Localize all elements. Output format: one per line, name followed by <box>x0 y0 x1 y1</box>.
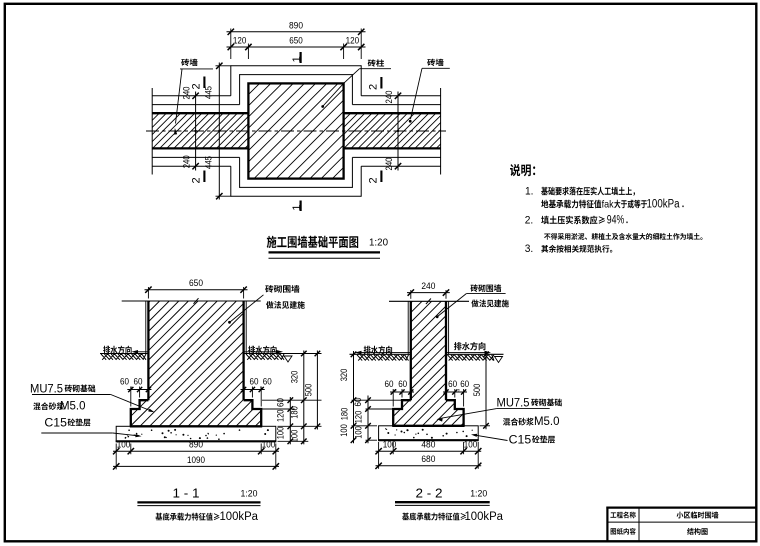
section 1-1: ext 60 left a <box>139 387 141 398</box>
section 2-2: label 砖砌基础 <box>531 399 562 407</box>
section 2-2: dim tick 60 right 2 <box>461 389 466 394</box>
section 1-1: leader C15 arrow <box>135 434 141 437</box>
svg-text:100: 100 <box>117 440 131 451</box>
svg-text:60: 60 <box>398 379 407 389</box>
section mark 2 lower right: cut tick <box>380 171 382 183</box>
section 1-1: wall face left <box>147 301 149 400</box>
plan: wall centerline <box>146 130 446 132</box>
section 2-2: ext footing bottom left <box>352 425 378 427</box>
section 2-2: plaster line left <box>407 301 409 354</box>
section 2-2: label 混合砂浆 <box>503 418 534 426</box>
plan: foundation step outline right edge lower <box>351 157 353 188</box>
section 2-2: ext pad bottom left <box>366 439 378 441</box>
svg-text:1: 1 <box>291 56 303 62</box>
section 1-1: footing bottom edge <box>130 425 262 427</box>
section 2-2: title rule thick <box>395 501 490 503</box>
section 2-2: drainage arrow left <box>355 351 362 355</box>
plan: dim tick 650 right <box>340 44 346 50</box>
plan: dim tick 120 left b <box>245 44 251 50</box>
plan: wall footing edge left bottom <box>152 165 231 167</box>
section 1-1: dim tick 60 left 2 <box>146 387 151 392</box>
section 1-1: ext 60 left b <box>130 387 132 407</box>
svg-text:C15: C15 <box>509 432 532 446</box>
section 2-2: dim tick 680 r <box>475 463 481 469</box>
plan: dim tick 240 left top <box>192 93 198 99</box>
section 2-2: soil hatch right <box>448 355 495 361</box>
section 2-2: dim line 240 <box>407 292 450 294</box>
svg-text:60: 60 <box>385 379 394 389</box>
section 2-2: ext bottom fo r <box>463 442 465 454</box>
svg-text:500: 500 <box>303 384 313 397</box>
section 1-1: ext pad bottom right <box>278 440 309 442</box>
section 2-2: wall face left <box>410 301 412 400</box>
svg-text:60: 60 <box>120 377 129 387</box>
section 1-1: dim tick 60 right 1 <box>250 387 255 392</box>
section 1-1: ext bottom fo r <box>260 444 262 455</box>
section 2-2: concrete pad C15 <box>379 426 479 440</box>
notes: line2 period <box>682 205 683 207</box>
plan: wall footing edge right bottom <box>361 165 440 167</box>
svg-text:890: 890 <box>189 440 203 451</box>
section 1-1: leader dot <box>228 321 231 324</box>
section 1-1: plaster line right <box>245 301 247 354</box>
section 2-2: leader C15 <box>473 435 508 441</box>
title block: label 工程名称 <box>610 512 635 519</box>
section 2-2: label 砖砌围墙 <box>471 284 502 292</box>
plan: foundation step outline left edge lower <box>239 157 241 188</box>
svg-text:1: 1 <box>291 205 303 211</box>
section 2-2: label 排水方向 left <box>364 346 392 354</box>
section 1-1: label 砖砌围墙 <box>265 285 299 293</box>
section 1-1: ground level symbol <box>284 356 292 362</box>
section 1-1: dim tick A0 <box>301 351 307 357</box>
section 2-2: ground line left <box>350 353 411 355</box>
svg-text:120: 120 <box>354 411 364 424</box>
svg-text:94%: 94% <box>607 214 625 226</box>
section 2-2: note 基底承载力特征值≥ <box>402 513 466 521</box>
plan title: rule thin <box>269 257 381 259</box>
section 2-2: pad stipple <box>385 428 476 439</box>
svg-text:650: 650 <box>289 35 303 46</box>
plan: dim dot 240 left center <box>194 130 196 132</box>
section 2-2: drainage arrow line left <box>358 352 411 354</box>
svg-text:2: 2 <box>368 177 380 183</box>
title block: row divider <box>607 521 756 523</box>
svg-text:2.: 2. <box>525 215 534 227</box>
section 2-2: wall face right <box>445 301 447 400</box>
plan: label 砖墙 left leader arrow <box>174 128 177 135</box>
section 2-2: drainage arrow right <box>485 351 492 355</box>
section 1-1: dim tick B0 <box>315 351 321 357</box>
section 1-1: dim tick B1 <box>315 424 321 430</box>
section 1-1: dim tick 60 left 1 <box>137 387 142 392</box>
section 2-2: label 砖砌围墙 underline <box>466 293 505 295</box>
section 1-1: dim tick A1 <box>301 397 307 403</box>
title block: left edge <box>606 507 608 542</box>
section 2-2: dim tick 60 right 1 <box>452 389 457 394</box>
svg-text:650: 650 <box>189 278 203 289</box>
plan: dim tick 240 right top <box>395 93 401 99</box>
section 1-1: footing steps right <box>244 400 262 426</box>
section 2-2: ext 60 right b <box>463 389 465 407</box>
section 1-1: ext step1 right <box>262 399 322 401</box>
title block: label 图纸内容 <box>611 528 636 535</box>
plan: label 砖柱 leader dot <box>321 105 324 108</box>
notes: line2 地基承载力特征值 <box>541 200 601 209</box>
plan: wall step edge right top <box>352 104 440 106</box>
section 1-1: label 排水方向 right <box>248 346 276 354</box>
section 1-1: ext line 650 r <box>243 287 245 299</box>
section 1-1: label C15 underline <box>41 432 113 434</box>
svg-text:1:20: 1:20 <box>241 489 258 500</box>
svg-text:100kPa: 100kPa <box>647 199 681 211</box>
section 2-2: label 做法见建施 <box>471 300 508 308</box>
section 2-2: dim tick 60 left 1 <box>399 389 404 394</box>
plan: label 砖墙 left <box>181 59 197 66</box>
section 1-1: ext 60 right a <box>251 387 253 398</box>
section 2-2: dim tick B0 <box>483 352 489 358</box>
section 1-1: drainage arrow left <box>132 350 139 354</box>
svg-text:320: 320 <box>289 371 299 384</box>
plan: dim line 120-650-120 <box>227 46 366 48</box>
section 1-1: ext bottom pad l <box>115 444 117 470</box>
svg-text:500: 500 <box>472 384 482 397</box>
plan: dim tick 445 bottom <box>216 193 222 199</box>
svg-text:120: 120 <box>275 409 285 422</box>
section 2-2: plaster line right <box>448 301 450 354</box>
plan: label 砖柱 underline <box>360 68 392 70</box>
section mark 1 top: cut tick <box>300 52 302 63</box>
section 1-1: dim line 60-60 left <box>127 389 151 391</box>
plan: foundation outline right edge lower <box>360 166 362 197</box>
plan: brick wall hatch left <box>124 113 280 148</box>
section 2-2: leader dot <box>436 315 439 318</box>
section 2-2: dim line 60-60 left <box>390 391 414 393</box>
svg-text:100: 100 <box>275 427 285 440</box>
svg-text:2: 2 <box>191 83 203 89</box>
svg-text:C15: C15 <box>44 415 67 429</box>
plan: brick column outline (650x650) <box>248 83 343 178</box>
notes: line3 填土压实系数应≥ <box>541 216 605 225</box>
section 2-2: dim line 320-180-100 left <box>353 351 355 443</box>
section 2-2: ext 60 left a <box>401 389 403 398</box>
svg-text:MU7.5: MU7.5 <box>30 381 63 395</box>
plan: brick wall face right bottom <box>344 147 441 149</box>
svg-text:120: 120 <box>346 35 360 46</box>
plan: label 砖柱 <box>368 59 384 66</box>
svg-text:100kPa: 100kPa <box>220 511 259 523</box>
plan: foundation step outline bottom edge <box>240 186 353 188</box>
svg-text:2: 2 <box>191 177 203 183</box>
section 1-1: label 混合砂浆 <box>33 402 64 410</box>
plan: brick wall face left bottom <box>152 147 248 149</box>
plan: dim line 240 right <box>397 92 399 171</box>
section 2-2: dim tick bottom1 1 <box>390 448 396 454</box>
section 1-1: dim line 320-180-100 <box>303 351 305 445</box>
section 1-1: pad stipple <box>125 429 269 440</box>
svg-text:1:20: 1:20 <box>470 489 487 500</box>
section 1-1: label 砖砌基础 <box>65 385 96 393</box>
section 2-2: dim tick 60 left 0 <box>391 389 396 394</box>
section 2-2: ext bottom fo l <box>392 442 394 454</box>
svg-text:60: 60 <box>460 379 469 389</box>
plan: dim line 240 left <box>195 92 197 171</box>
section 1-1: ext line 650 l <box>147 287 149 299</box>
section 1-1: ext footing bottom right <box>278 425 322 427</box>
plan: wall step edge left bottom <box>152 156 239 158</box>
section mark 1 bottom: cut tick <box>300 201 302 212</box>
plan: extension line right inner <box>343 44 345 60</box>
plan: label 砖墙 left leader <box>176 69 183 124</box>
plan: foundation outline left edge upper <box>230 65 232 96</box>
svg-text:240: 240 <box>384 158 395 171</box>
section 1-1: dim tick A2 <box>301 424 307 430</box>
notes: line5 其余按相关规范执行。 <box>541 245 612 253</box>
section 1-1: dim tick 650 r <box>240 287 246 293</box>
section 2-2: dim tick B1 <box>483 423 489 429</box>
section 1-1: leader 砖砌围墙 <box>230 295 264 322</box>
section 2-2: leader 砖砌围墙 <box>438 294 467 317</box>
section 2-2: footing bottom edge <box>392 425 464 427</box>
svg-text:120: 120 <box>233 35 247 46</box>
svg-text:60: 60 <box>263 377 272 387</box>
section 2-2: ext footing bottom right <box>480 425 491 427</box>
svg-text:60: 60 <box>275 398 285 407</box>
svg-text:180: 180 <box>340 408 350 421</box>
section 2-2: dim line 500 <box>485 351 487 429</box>
svg-text:60: 60 <box>448 379 457 389</box>
svg-text:320: 320 <box>339 369 349 382</box>
svg-text:,: , <box>259 380 261 390</box>
section 2-2: dim tick 240 r <box>443 289 449 295</box>
section 1-1: dim line 500 <box>316 351 318 430</box>
plan: dim dot 445 center <box>218 130 220 132</box>
svg-text:1 - 1: 1 - 1 <box>173 487 200 501</box>
svg-text:240: 240 <box>384 91 395 104</box>
section 2-2: leader MU arrow <box>437 419 443 422</box>
plan: dim tick 240 left bottom <box>192 163 198 169</box>
plan: extension line left outer <box>230 29 232 60</box>
section 2-2: footing steps right <box>446 400 464 426</box>
section 2-2: dim tick A2 <box>351 423 357 429</box>
plan: dim tick 120 left a <box>228 44 234 50</box>
section 1-1: dim line 60-120-100 <box>289 397 291 444</box>
plan: dim line 890 <box>227 31 366 33</box>
svg-text:2 - 2: 2 - 2 <box>416 487 443 501</box>
section 1-1: dim tick bottom1 1 <box>128 448 134 454</box>
section 2-2: dim tick C2 <box>365 423 371 429</box>
section 1-1: label MU underline <box>32 394 111 396</box>
plan: foundation outline top edge (890) <box>231 65 361 67</box>
plan: wall footing edge right top <box>361 95 440 97</box>
plan: dim tick 240 right bottom <box>395 163 401 169</box>
section 2-2: dim tick C3 <box>365 437 371 443</box>
plan: brick wall face right top <box>344 112 441 114</box>
plan: dim tick 890 left <box>228 29 234 35</box>
plan: foundation outline right edge upper <box>360 65 362 96</box>
plan: wall footing edge left top (480) <box>152 95 231 97</box>
section 1-1: dim tick 650 l <box>145 287 151 293</box>
section 1-1: ext bottom pad r <box>275 444 277 470</box>
section 1-1: drainage arrow right <box>277 350 284 354</box>
section 2-2: label 排水方向 right <box>454 342 486 350</box>
plan: label 砖墙 right leader dot <box>409 120 412 123</box>
section 2-2: dim tick 680 l <box>375 463 381 469</box>
plan: wall break line right <box>440 88 442 175</box>
svg-text:M5.0: M5.0 <box>60 399 86 413</box>
svg-text:680: 680 <box>421 454 435 465</box>
section 2-2: ext step1 left <box>352 399 404 401</box>
section 2-2: label MU underline <box>497 408 550 410</box>
section 2-2: dim tick 240 l <box>408 289 414 295</box>
title block: value 结构图 <box>687 528 708 535</box>
section 1-1: dim tick C0 <box>288 397 294 403</box>
section 2-2: label 砼垫层 <box>532 436 555 444</box>
section 1-1: leader MU arrow <box>148 409 154 413</box>
svg-text:3.: 3. <box>525 243 534 255</box>
plan: foundation step outline top edge (770) <box>240 74 353 76</box>
svg-text:1090: 1090 <box>187 455 205 466</box>
section 2-2: dim tick A3 <box>351 437 357 443</box>
section 1-1: brick hatch <box>15 301 380 426</box>
section 1-1: title rule thin <box>137 505 260 507</box>
section 2-2: ext line 240 l <box>410 290 412 299</box>
section 1-1: soil hatch right <box>246 354 284 360</box>
section 2-2: leader MU <box>439 409 497 419</box>
svg-text:60: 60 <box>134 377 143 387</box>
svg-text:480: 480 <box>421 440 435 451</box>
section 2-2: dim tick 60 left 2 <box>408 389 413 394</box>
section 1-1: dim tick C2 <box>288 424 294 430</box>
plan: extension line right outer <box>360 29 362 60</box>
svg-text:180: 180 <box>289 406 299 419</box>
section 1-1: plaster line left <box>145 301 147 354</box>
section mark 2 upper left: cut tick <box>203 77 205 89</box>
svg-text:fak: fak <box>602 198 615 210</box>
section 2-2: ext bottom pad l <box>378 442 380 469</box>
plan: dim tick 445 top <box>216 63 222 69</box>
plan: extension line 445 bottom <box>216 195 231 197</box>
title block: column divider <box>638 508 640 542</box>
svg-text:445: 445 <box>204 156 215 169</box>
section 1-1: concrete pad C15 <box>116 426 276 441</box>
title block: top edge <box>606 507 756 509</box>
section 2-2: dim tick bottom1 3 <box>475 448 481 454</box>
svg-text:100: 100 <box>289 430 299 443</box>
section 1-1: footing steps left <box>131 400 149 426</box>
section 2-2: dim tick A1 <box>351 397 357 403</box>
section 2-2: dim tick C0 <box>365 397 371 403</box>
section 2-2: brick hatch <box>278 301 585 426</box>
svg-text:M5.0: M5.0 <box>534 414 560 428</box>
plan: label 砖墙 left underline <box>180 68 213 70</box>
section 2-2: drainage arrow line right <box>446 352 489 354</box>
plan: extension line left inner <box>247 44 249 60</box>
svg-text:100: 100 <box>262 440 276 451</box>
section 1-1: leader MU <box>111 395 153 412</box>
section 1-1: ext 60 right b <box>260 387 262 407</box>
section 1-1: dim tick 1090 l <box>113 463 119 469</box>
section 1-1: note 基底承载力特征值≥ <box>156 513 220 521</box>
section 1-1: dim line 1090 <box>113 465 279 467</box>
section 1-1: dim tick 1090 r <box>273 463 279 469</box>
section 1-1: ext bottom fo l <box>130 444 132 455</box>
section 1-1: title rule thick <box>137 501 260 503</box>
section 2-2: dim line 100-480-100 <box>376 450 482 452</box>
section 1-1: dim tick bottom1 0 <box>113 448 119 454</box>
plan: foundation outline left edge lower <box>230 166 232 197</box>
section 1-1: leader C15 <box>113 433 140 436</box>
section 1-1: label 做法见建施 <box>266 301 305 309</box>
section 1-1: drainage arrow line left <box>134 351 148 353</box>
section 1-1: dim tick C3 <box>288 439 294 445</box>
plan: wall break line left <box>151 88 153 175</box>
section 2-2: dim tick C1 <box>365 406 371 412</box>
plan: label 砖柱 leader b <box>323 83 344 106</box>
section 1-1: concrete pad bottom edge <box>116 440 277 442</box>
svg-text:890: 890 <box>289 20 303 31</box>
notes: line4 不得采用淤泥、耕植土及含水量大的细粒土作为填土。 <box>544 233 702 240</box>
section 2-2: concrete pad bottom edge <box>378 439 479 441</box>
section 1-1: ext step2 right <box>262 408 295 410</box>
plan: foundation step outline left edge upper <box>239 74 241 105</box>
section 1-1: label 排水方向 left <box>103 346 131 354</box>
plan title: 施工围墙基础平面图 <box>267 236 359 248</box>
section 2-2: ext line 240 r <box>445 290 447 299</box>
section 1-1: label 砼垫层 <box>68 419 91 427</box>
plan: dim line 445 left <box>218 63 220 200</box>
svg-text:240: 240 <box>421 281 435 292</box>
title block: value 小区临时围墙 <box>677 512 719 519</box>
section 2-2: ground level symbol <box>495 357 503 363</box>
section 1-1: soil hatch left <box>101 354 146 360</box>
section 2-2: dim tick bottom1 0 <box>375 448 381 454</box>
section 1-1: ground line left <box>100 353 148 355</box>
svg-text:1.: 1. <box>525 186 534 198</box>
section mark 2 upper right: cut tick <box>380 77 382 89</box>
plan: dim dot 240 right center <box>397 130 399 132</box>
plan: dim tick 890 right <box>358 29 364 35</box>
svg-text:100: 100 <box>354 426 364 439</box>
svg-text:60: 60 <box>353 397 363 406</box>
section 1-1: wall top break mark <box>194 298 199 304</box>
section 1-1: dim tick 60 right 2 <box>259 387 264 392</box>
section 2-2: ext 60 left b <box>392 389 394 407</box>
svg-text:100: 100 <box>383 440 397 451</box>
section 2-2: wall top edge line <box>389 300 469 302</box>
section 1-1: dim tick bottom1 3 <box>273 448 279 454</box>
svg-text:,: , <box>130 380 132 390</box>
notes: line2 大于或等于 <box>614 200 647 209</box>
section 1-1: dim tick C1 <box>288 406 294 412</box>
plan: wall step edge left top (360) <box>152 104 239 106</box>
plan: wall step edge right bottom <box>352 156 440 158</box>
section 2-2: dim line 60-120-100 left <box>367 396 369 444</box>
section 1-1: wall top edge line <box>122 300 261 302</box>
section mark 2 lower left: cut tick <box>203 171 205 183</box>
section 2-2: dim tick 60 right 0 <box>443 389 448 394</box>
section 2-2: ground line right <box>446 353 504 355</box>
svg-text:,: , <box>395 382 397 392</box>
section 1-1: dim line 100-890-100 <box>113 450 279 452</box>
section 2-2: footing steps left <box>393 400 411 426</box>
svg-text:100kPa: 100kPa <box>465 511 504 523</box>
plan: foundation outline bottom edge <box>231 195 361 197</box>
plan: label 砖墙 right underline <box>422 67 450 69</box>
section 1-1: ground line right <box>244 353 322 355</box>
svg-text:60: 60 <box>250 377 259 387</box>
section 2-2: dim line 680 <box>376 465 482 467</box>
